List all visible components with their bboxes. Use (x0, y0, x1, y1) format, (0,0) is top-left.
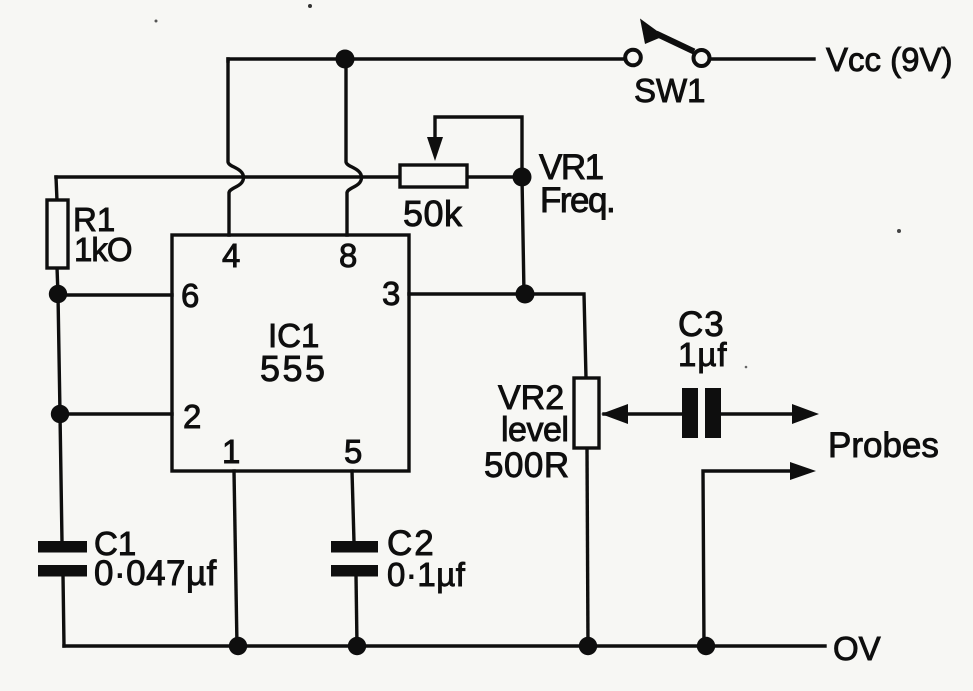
wire pin 4 vertical with hop over control wire (228, 59, 244, 235)
wire control bus at y177 from R1 top to VR1 (56, 175, 400, 178)
junction dot pin6 node (49, 285, 67, 303)
wire top rail from pin4 corner to SW1 left contact (228, 59, 626, 61)
scan speck top left (155, 20, 158, 23)
potentiometer VR2 body (574, 378, 599, 448)
junction dot pin3 node (516, 285, 535, 304)
svg-text:8: 8 (339, 237, 357, 274)
svg-text:500R: 500R (484, 446, 570, 485)
wire pin 6 (58, 293, 172, 296)
capacitor C3 plates (682, 388, 698, 438)
svg-text:555: 555 (260, 348, 328, 389)
resistor R1 body (47, 200, 68, 268)
wire VR1 right terminal to node (467, 175, 522, 178)
svg-text:Vcc (9V): Vcc (9V) (826, 41, 953, 78)
svg-text:2: 2 (183, 398, 201, 435)
svg-text:4: 4 (222, 237, 240, 274)
svg-text:0·1µf: 0·1µf (387, 556, 466, 593)
wire pin 1 down to 0V rail (234, 471, 237, 646)
switch SW1 lever arrowhead (640, 19, 664, 45)
switch SW1 left contact (625, 50, 641, 66)
probes lower arrowhead pointing right (790, 462, 816, 480)
svg-text:0·047µf: 0·047µf (94, 554, 217, 593)
wire pin 2 (60, 412, 172, 415)
junction dot 0V rail pin1 (229, 637, 247, 655)
svg-text:SW1: SW1 (634, 72, 706, 109)
svg-text:3: 3 (382, 275, 400, 312)
junction dot top rail at pin8 riser (336, 50, 355, 69)
junction dot 0V rail VR2 (579, 637, 597, 655)
svg-text:1kO: 1kO (74, 231, 132, 268)
wire bottom 0V rail (64, 644, 825, 647)
wire pin 5 down to C2 (352, 471, 354, 542)
wire C1 bottom to 0V rail (63, 575, 64, 646)
wire VR1 node down to pin3 node (522, 177, 524, 294)
VR1 wiper arrowhead (427, 137, 443, 161)
potentiometer VR1 body (400, 165, 467, 187)
junction dot 0V rail C2 (348, 637, 366, 655)
svg-text:1µf: 1µf (678, 336, 728, 373)
scan speck right (897, 229, 901, 233)
scan speck top (308, 4, 312, 8)
svg-text:Probes: Probes (828, 426, 939, 465)
svg-text:OV: OV (833, 630, 881, 667)
wire VR2 bottom to 0V rail (587, 448, 588, 646)
wire left rail pin6 node to pin2 node (58, 294, 60, 414)
svg-text:6: 6 (181, 277, 199, 314)
wire pin 8 vertical with hop over control wire (346, 59, 362, 235)
probes upper arrowhead pointing right (792, 404, 819, 424)
wire pin2 node down to C1 (60, 414, 62, 542)
VR2 wiper arrowhead pointing left (601, 404, 628, 424)
scan speck mid (745, 366, 748, 369)
switch SW1 right contact (694, 50, 710, 66)
capacitor C1 plates (38, 541, 87, 553)
svg-text:5: 5 (344, 433, 362, 470)
IC1 555 body (172, 235, 409, 471)
wire VR1 wiper feedback loop (435, 117, 522, 177)
svg-text:level: level (501, 411, 568, 449)
junction dot 0V rail probe branch (697, 637, 715, 655)
svg-text:1: 1 (222, 433, 240, 470)
junction dot VR1 output node (513, 168, 532, 187)
wire VR2 wiper to C3 left plate (604, 412, 682, 415)
capacitor C2 plates (331, 541, 378, 553)
junction dot pin2 node (51, 405, 69, 423)
svg-text:50k: 50k (403, 193, 463, 234)
svg-text:Freq.: Freq. (540, 181, 614, 220)
wire R1 bottom to pin6 node (57, 267, 58, 295)
switch SW1 lever (656, 34, 694, 52)
wire C2 bottom to 0V rail (356, 575, 357, 646)
wire R1 top stub (56, 177, 57, 201)
wire SW1 right contact to Vcc (709, 57, 814, 60)
wire pin 3 to VR2 branch (409, 294, 586, 378)
wire C3 right plate to probe arrow (721, 412, 796, 415)
wire lower probe branch (703, 471, 794, 646)
